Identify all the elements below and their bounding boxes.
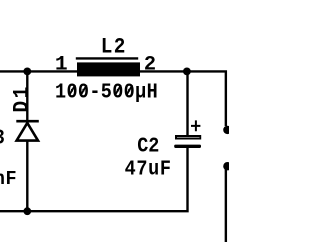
svg-text:L2: L2 bbox=[101, 35, 127, 60]
plus sign bbox=[191, 120, 200, 131]
svg-text:100nF: 100nF bbox=[0, 168, 17, 191]
diode D1 cathode bar bbox=[16, 120, 39, 123]
inductor L2 core line bbox=[76, 57, 138, 59]
pin dot right upper bbox=[223, 126, 231, 134]
wire bottom net bbox=[0, 146, 188, 211]
junction left bottom bbox=[23, 207, 31, 215]
svg-text:C2: C2 bbox=[137, 134, 159, 159]
wire left vertical (diode branch) bbox=[26, 71, 28, 211]
capacitor C2 top plate bbox=[176, 136, 200, 139]
capacitor C2 bottom plate bbox=[174, 145, 201, 148]
svg-text:D1: D1 bbox=[9, 84, 35, 112]
wire right lower segment bbox=[225, 167, 227, 242]
diode D1 triangle bbox=[17, 123, 38, 141]
wire capacitor top branch bbox=[186, 71, 188, 136]
junction capacitor top bbox=[183, 68, 191, 76]
svg-text:47uF: 47uF bbox=[125, 157, 172, 182]
svg-text:2: 2 bbox=[144, 53, 156, 76]
slashed zero marks for value bbox=[69, 85, 132, 95]
svg-text:C3: C3 bbox=[0, 126, 5, 151]
junction left top bbox=[23, 68, 31, 76]
inductor L2 body bbox=[77, 62, 140, 76]
pin dot right lower bbox=[223, 162, 231, 170]
wire top horizontal net bbox=[0, 71, 226, 126]
svg-text:1: 1 bbox=[55, 54, 68, 77]
